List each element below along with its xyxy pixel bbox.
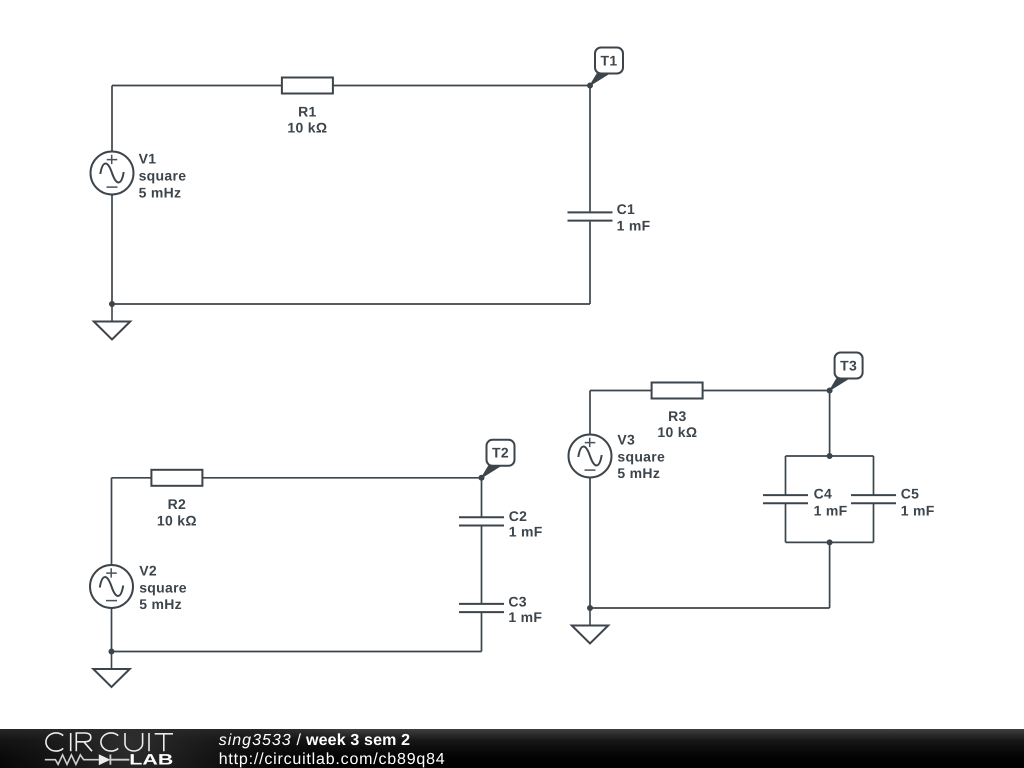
label V2 [139, 563, 187, 613]
junction dot at T2 node [479, 475, 485, 481]
label R1 value [287, 103, 327, 135]
CircuitLab logo letter R [76, 733, 92, 751]
svg-text:C4: C4 [814, 486, 833, 502]
svg-text:V1: V1 [139, 151, 157, 167]
svg-text:R3: R3 [668, 408, 687, 424]
voltage source V3 [569, 435, 612, 478]
svg-text:V2: V2 [139, 563, 157, 579]
svg-text:sing3533 / week 3 sem 2: sing3533 / week 3 sem 2 [219, 732, 410, 749]
svg-text:square: square [139, 580, 187, 596]
svg-text:C3: C3 [508, 594, 527, 610]
ground of circuit 1 [94, 304, 130, 340]
svg-text:10 kΩ: 10 kΩ [657, 424, 697, 440]
ground of circuit 3 [572, 608, 608, 644]
label C1 [617, 201, 651, 233]
svg-text:http://circuitlab.com/cb89q84: http://circuitlab.com/cb89q84 [219, 751, 445, 768]
wire below parallel block [829, 542, 831, 608]
node T1 flag [590, 48, 623, 86]
svg-text:1 mF: 1 mF [508, 609, 542, 625]
resistor R3 [652, 383, 703, 399]
svg-text:10 kΩ: 10 kΩ [287, 119, 327, 135]
wire from T3 node down to parallel block [829, 391, 831, 457]
resistor R2 [151, 470, 202, 486]
resistor R1 [282, 78, 333, 94]
label C5 [901, 486, 935, 519]
svg-text:T3: T3 [840, 357, 857, 373]
wire top of circuit 2 [112, 477, 482, 479]
junction dot at V1 ground node [109, 301, 115, 307]
label C2 [509, 508, 543, 540]
wire bottom of circuit 2 [112, 651, 482, 653]
svg-text:C2: C2 [509, 508, 528, 524]
capacitor C5 [851, 495, 896, 503]
svg-text:square: square [139, 168, 187, 184]
junction dot at V2 ground node [109, 649, 115, 655]
wire right branch of parallel block [873, 456, 875, 542]
label C4 [814, 486, 848, 519]
wire top of circuit 1 [112, 85, 590, 87]
node T3 flag [830, 353, 863, 391]
svg-text:1 mF: 1 mF [617, 217, 651, 233]
svg-text:C1: C1 [617, 201, 636, 217]
CircuitLab logo letter I2 [148, 733, 150, 751]
junction dot bottom of parallel block [827, 539, 833, 545]
CircuitLab logo resistor zigzag [45, 755, 99, 765]
junction dot at T3 node [827, 388, 833, 394]
footer bar [0, 729, 1024, 768]
svg-text:5 mHz: 5 mHz [139, 185, 182, 201]
CircuitLab logo letter I [70, 733, 72, 751]
label V1 [139, 151, 187, 201]
footer url line [219, 751, 445, 768]
svg-text:1 mF: 1 mF [901, 503, 935, 519]
CircuitLab logo diode [99, 754, 130, 765]
svg-text:5 mHz: 5 mHz [139, 596, 182, 612]
capacitor C4 [763, 495, 808, 503]
CircuitLab logo letter T [155, 734, 173, 751]
svg-text:10 kΩ: 10 kΩ [157, 513, 197, 529]
wire bottom of circuit 1 [112, 303, 590, 305]
ground of circuit 2 [93, 652, 129, 688]
capacitor C3 [459, 604, 504, 612]
capacitor C1 [568, 212, 613, 220]
voltage source V2 [90, 565, 133, 608]
wire top edge of parallel block [786, 455, 874, 457]
wire left branch of parallel block [785, 456, 787, 542]
CircuitLab logo LAB text [129, 752, 173, 768]
wire top of circuit 3 [590, 390, 830, 392]
label C3 [508, 594, 542, 626]
svg-text:T1: T1 [601, 52, 618, 68]
label R3 value [657, 408, 697, 440]
wire right vertical of circuit 2 [481, 478, 483, 652]
label R2 value [157, 496, 197, 529]
wire left vertical of circuit 1 [111, 86, 113, 305]
svg-text:T2: T2 [492, 445, 509, 461]
junction dot top of parallel block [827, 453, 833, 459]
wire bottom edge of parallel block [786, 541, 874, 543]
svg-text:5 mHz: 5 mHz [617, 465, 660, 481]
footer title line [219, 732, 410, 749]
capacitor C2 [459, 517, 504, 525]
wire left vertical of circuit 3 [589, 391, 591, 609]
junction dot at T1 node [587, 83, 593, 89]
wire bottom of circuit 3 [590, 607, 830, 609]
wire left vertical of circuit 2 [111, 478, 113, 652]
label V3 [617, 431, 665, 480]
CircuitLab logo letter C [46, 733, 63, 751]
svg-text:C5: C5 [901, 486, 920, 502]
CircuitLab logo letter U [125, 733, 143, 751]
svg-text:LAB: LAB [129, 752, 173, 768]
junction dot at V3 ground node [587, 605, 593, 611]
svg-text:1 mF: 1 mF [814, 503, 848, 519]
svg-text:R2: R2 [168, 496, 187, 512]
voltage source V1 [91, 152, 134, 195]
wire right vertical of circuit 1 [589, 86, 591, 305]
svg-text:V3: V3 [617, 431, 635, 447]
CircuitLab logo letter C2 [101, 733, 118, 751]
svg-text:square: square [617, 448, 665, 464]
svg-text:R1: R1 [298, 103, 317, 119]
node T2 flag [482, 440, 515, 478]
svg-text:1 mF: 1 mF [509, 524, 543, 540]
